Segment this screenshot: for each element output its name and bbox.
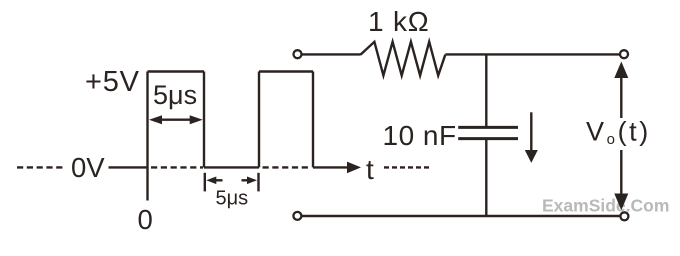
svg-text:t: t: [366, 154, 374, 185]
output voltage double arrow V0(t): [614, 62, 628, 211]
time axis arrow toward t: [313, 162, 361, 174]
wire: input + terminal to resistor: [302, 53, 361, 55]
svg-text:Vo(t): Vo(t): [586, 117, 651, 149]
dimension ticks and arrows 5us (gap): [205, 173, 259, 192]
wire: capacitor to bottom node: [485, 139, 487, 216]
svg-text:ExamSide.Com: ExamSide.Com: [542, 196, 669, 216]
svg-text:10 nF: 10 nF: [383, 120, 457, 151]
dimension arrow 5us (pulse 1): [149, 115, 203, 124]
wire: top node down to capacitor: [485, 54, 487, 127]
svg-text:5μs: 5μs: [153, 80, 197, 110]
terminal: input -: [293, 212, 301, 220]
0V dashed level under pulse 2: [263, 166, 311, 168]
wire: resistor to output + terminal: [445, 53, 620, 55]
wire: signal baseline before t=0: [109, 166, 148, 168]
wire: bottom return: [302, 215, 621, 217]
capacitor C1 10 nF: [458, 127, 518, 138]
wire: 0V level dashed continuation (far left): [17, 166, 63, 168]
time axis vertical (t=0) / pulse 1 rising edge: [146, 72, 148, 201]
terminal: output -: [620, 212, 628, 220]
terminal: output +: [620, 50, 628, 58]
svg-text:0V: 0V: [71, 152, 105, 183]
current direction arrow (through capacitor): [525, 112, 538, 163]
svg-text:0: 0: [138, 204, 153, 235]
pulse 1 top (+5V level): [148, 70, 205, 72]
svg-text:1 kΩ: 1 kΩ: [368, 6, 429, 37]
pulse 1 falling edge: [203, 72, 205, 168]
svg-text:+5V: +5V: [85, 66, 140, 98]
svg-text:5μs: 5μs: [216, 188, 249, 210]
pulse 2 falling edge: [312, 72, 314, 168]
pulse 2 rising edge: [258, 72, 260, 168]
resistor R1 1 kOhm: [360, 42, 445, 76]
wire: signal baseline between pulses (0V): [204, 166, 259, 168]
0V dashed level under pulse 1: [151, 166, 203, 168]
pulse 2 top (+5V level): [259, 70, 313, 72]
terminal: input +: [294, 50, 302, 58]
wire: 0V level dashed continuation (right of t): [384, 166, 429, 168]
